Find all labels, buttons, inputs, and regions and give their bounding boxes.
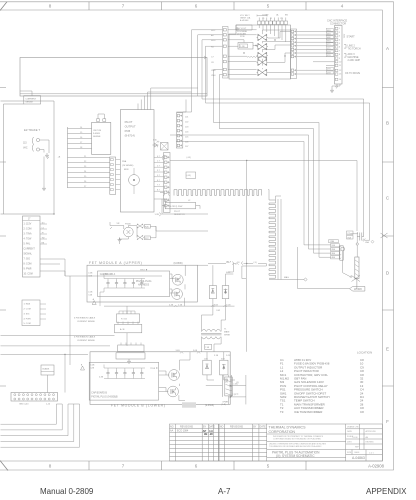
delta symbol module B [81, 366, 85, 370]
svg-text:6 PIN RIBBON CABLE: 6 PIN RIBBON CABLE [74, 317, 96, 320]
svg-text:(9-6506): (9-6506) [174, 262, 183, 265]
CNC annotation ARC V MACHINE [344, 54, 346, 58]
svg-text:D16: D16 [153, 140, 158, 142]
plug P1 contact lower [36, 148, 39, 151]
svg-text:T3: T3 [280, 410, 284, 414]
svg-text:9B: 9B [204, 432, 207, 436]
svg-text:C1: C1 [42, 227, 44, 229]
svg-text:CURRENT: CURRENT [25, 98, 36, 100]
svg-text:REVISIONS: REVISIONS [180, 425, 193, 428]
long sense wire to shunt [170, 161, 357, 232]
svg-text:A-02908: A-02908 [368, 464, 385, 469]
svg-text:TP08: TP08 [150, 368, 156, 370]
wire W10 long run to negative bus [202, 40, 364, 232]
svg-text:6: 6 [339, 47, 341, 49]
svg-text:-98: -98 [209, 432, 213, 436]
svg-text:106: 106 [185, 142, 189, 144]
svg-text:TW: TW [42, 237, 45, 239]
svg-text:CURRENT SENSE: CURRENT SENSE [77, 321, 95, 323]
svg-text:J7: J7 [28, 219, 31, 221]
pilot inductor L2 horizontal winding [174, 190, 262, 196]
svg-text:(9-6714): (9-6714) [125, 134, 135, 138]
wires divider internals [228, 30, 257, 75]
wire bus into J10 top [48, 354, 80, 404]
frame zone ticks right [383, 88, 394, 387]
junction arrow upper [230, 384, 232, 387]
terminal block TB1 stub wires [40, 224, 47, 244]
terminal strip TS above divider PCB [258, 18, 288, 25]
svg-text:DATE: DATE [347, 430, 353, 433]
svg-text:C8: C8 [211, 62, 215, 64]
pilot PCB left header J6 [110, 157, 116, 194]
svg-text:4: TOW: 4: TOW [24, 239, 33, 241]
svg-text:C: C [386, 196, 390, 201]
svg-text:C7: C7 [211, 57, 215, 59]
bridge BR1 [161, 143, 169, 151]
svg-text:10: COM: 10: COM [24, 274, 33, 276]
svg-text:2 ARC AMP: 2 ARC AMP [348, 59, 361, 62]
svg-text:OK TO MOVE: OK TO MOVE [345, 72, 360, 75]
svg-text:A: A [386, 46, 389, 51]
frame zone ticks top [89, 2, 306, 11]
svg-text:5: 5 [339, 43, 341, 45]
svg-text:12: 12 [339, 70, 342, 72]
frame zone ticks bottom [89, 461, 306, 470]
CNC annotation LINE 2 TIG TORCH [344, 45, 346, 49]
svg-text:VOL TAL Y: VOL TAL Y [240, 14, 250, 17]
svg-text:W1.F: W1.F [226, 262, 232, 264]
MOSFET Q4 [168, 386, 179, 397]
CNC wire number labels [327, 30, 332, 75]
wire R4 long run to work bus [206, 46, 370, 240]
terminal label 17B6 [329, 240, 339, 243]
svg-text:115: 115 [42, 222, 45, 224]
gate resistor board RB1 [118, 345, 144, 352]
CNC annotation START [344, 34, 345, 38]
capacitor bank B [104, 367, 145, 369]
svg-text:CB PCB: CB PCB [93, 130, 102, 132]
svg-text:A.1B: A.1B [214, 303, 219, 306]
ground spark gap [118, 238, 122, 242]
svg-text:79: 79 [42, 232, 44, 234]
divider PCB left pin wire labels [211, 30, 216, 77]
svg-text:17B: 17B [225, 382, 229, 384]
upper header wire labels [185, 117, 189, 148]
svg-text:8: 8 [339, 54, 341, 56]
wires module A internals [170, 265, 208, 306]
svg-text:8: COM: 8: COM [24, 264, 32, 266]
svg-text:D.2B: D.2B [226, 355, 231, 357]
svg-text:DRAWN CHK: DRAWN CHK [347, 426, 359, 429]
svg-text:GMMY 11A: GMMY 11A [240, 16, 251, 19]
svg-text:PCB: PCB [125, 129, 131, 133]
resistor R26 box [144, 225, 150, 229]
title block company name [269, 425, 307, 434]
svg-text:CURRENT SENSE: CURRENT SENSE [77, 340, 95, 342]
svg-text:MAG: MAG [284, 276, 289, 279]
svg-text:CAP BOARD A: CAP BOARD A [100, 273, 116, 276]
blank PCB box [41, 365, 54, 375]
ground module B [127, 359, 131, 363]
svg-text:7: 7 [122, 464, 125, 469]
wires C2 to buses [356, 237, 358, 243]
capacitor bank A [104, 278, 145, 280]
svg-text:FET MODULE B (LOWER): FET MODULE B (LOWER) [111, 403, 166, 407]
svg-text:2.1B: 2.1B [178, 304, 183, 306]
nested routing loop wire 3 [170, 135, 331, 249]
svg-text:2: 2 [339, 32, 341, 34]
svg-text:+B: +B [58, 157, 61, 159]
pilot output PCB box [120, 110, 154, 212]
output stud column [340, 246, 343, 260]
svg-text:(.5): (.5) [254, 262, 257, 264]
wire C7 C8 drop to nested loop [214, 70, 223, 129]
wire J10 exit 2 [1, 404, 63, 430]
svg-text:9: PWR: 9: PWR [24, 269, 32, 271]
junction diamond work [304, 278, 307, 281]
revision stamp [203, 429, 214, 436]
node 4.8 arrows [162, 155, 167, 157]
wires pilot resistor [154, 193, 208, 215]
output inductor L1 core line [278, 199, 281, 280]
svg-text:W10: W10 [211, 40, 216, 42]
svg-text:C1B: C1B [88, 295, 93, 297]
svg-text:7: SIG: 7: SIG [24, 259, 31, 261]
svg-text:4.3B: 4.3B [99, 377, 104, 379]
scan smudge highlight [182, 402, 196, 407]
svg-text:4: 4 [341, 4, 344, 9]
gate resistor board RA1 [117, 314, 140, 322]
svg-text:TIG TORCH: TIG TORCH [348, 47, 361, 50]
svg-text:B: B [386, 121, 389, 126]
svg-text:2: COM: 2: COM [24, 229, 32, 231]
CNC connector bottom wires and ground [332, 84, 340, 88]
wires module B internals [159, 352, 190, 401]
svg-text:45A: 45A [365, 241, 369, 244]
voltage divider PCB U10 outline [229, 25, 291, 79]
footer A-7 [218, 487, 230, 496]
aux terminal block TB2 [22, 300, 40, 326]
svg-text:CONNECTOR: CONNECTOR [330, 23, 346, 26]
module A pin labels left [88, 273, 93, 297]
svg-text:OUTPUT: OUTPUT [125, 125, 136, 129]
svg-text:BLANK: BLANK [43, 368, 50, 371]
svg-text:4.1B: 4.1B [88, 292, 93, 294]
capacitor C2 labels [347, 231, 354, 235]
transformer T1 secondary [202, 337, 221, 339]
testpoint box TP08 on T1 lead [205, 345, 212, 350]
freewheel diode D3 [203, 360, 211, 375]
wires pilot PCB top risers [138, 88, 198, 110]
svg-text:A :AY AVI: A :AY AVI [240, 19, 249, 22]
arrestor gap lower [137, 236, 143, 240]
voltage divider PCB label [237, 28, 248, 38]
frame corner mark bottom-left [0, 461, 8, 471]
svg-text:(.5): (.5) [236, 382, 239, 384]
svg-text:102: 102 [185, 122, 189, 124]
svg-text:PBA: PBA [122, 160, 127, 163]
svg-text:101: 101 [185, 117, 189, 119]
svg-text:SIGNAL: SIGNAL [24, 253, 33, 256]
svg-text:8: 8 [49, 4, 52, 9]
svg-text:VR: VR [117, 223, 120, 225]
MOSFET Q2 [172, 289, 183, 300]
svg-text:5: 5 [267, 464, 270, 469]
svg-text:104: 104 [185, 132, 189, 134]
wire J10 exit 5 [1, 404, 80, 447]
svg-text:EZ TRAKE T: EZ TRAKE T [24, 128, 40, 132]
frame zone ticks left [0, 88, 6, 387]
svg-text:(X): SYSTEM SCHEMATIC: (X): SYSTEM SCHEMATIC [276, 454, 315, 458]
harness bus vertical [67, 127, 69, 188]
wires spark gap cluster [110, 222, 208, 244]
svg-text:BRN: BRN [124, 169, 129, 171]
wire TB1 aux vertical [69, 276, 71, 365]
svg-text:4.8: 4.8 [162, 159, 166, 161]
svg-text:1: 1 [339, 28, 341, 30]
dimension bracket above strip [257, 15, 267, 17]
svg-text:BY: BY [203, 425, 207, 428]
cap board A box [98, 271, 170, 297]
shunt R1 [355, 257, 359, 279]
svg-text:CORPORATION: CORPORATION [269, 430, 296, 434]
svg-text:1: 115V: 1: 115V [24, 224, 32, 226]
transformer T1 label [224, 329, 230, 337]
terminal label 2B6 [331, 248, 340, 251]
current sense block CS [24, 96, 41, 104]
harness wire labels group 2 [84, 156, 87, 188]
harness wires group 1 to current pcb [68, 129, 92, 149]
svg-text:DATE: DATE [209, 425, 216, 428]
terminal label 3B6 [331, 252, 340, 255]
svg-text:AA: AA [170, 430, 174, 433]
output diode D2 [222, 286, 229, 299]
svg-text:LOCATION: LOCATION [357, 351, 372, 355]
svg-text:9-6969: 9-6969 [93, 133, 101, 135]
svg-text:VAC: VAC [23, 147, 28, 150]
transformer T1 primary [202, 329, 221, 331]
transformer bowties T inside divider PCB [257, 34, 268, 41]
svg-text:5: 5 [267, 4, 270, 9]
work return riser [298, 247, 350, 289]
contactor stud MC1 [341, 247, 345, 251]
connector J10 pins row 2 [14, 398, 55, 400]
svg-text:CURRENT: CURRENT [24, 249, 36, 251]
wires T2 taps [206, 386, 246, 397]
MOSFET Q1 [172, 274, 183, 285]
wire plug to pilot pcb [40, 140, 49, 186]
svg-text:DATE: DATE [260, 425, 267, 428]
svg-text:PCB: PCB [240, 36, 245, 38]
node labels row A [169, 303, 231, 306]
svg-text:INFORMATION PROPRIETARY TO THE: INFORMATION PROPRIETARY TO THERMAL DYNAM… [273, 435, 324, 438]
svg-text:CORPORATION AND NOT RELEASED O: CORPORATION AND NOT RELEASED OR PUBLISHE… [273, 438, 322, 441]
connector J10 pins row 1 [14, 394, 55, 396]
CNC interface connector body [335, 26, 343, 85]
footer Manual 0-2809 [40, 487, 93, 496]
wire TB1 to ribbon loop [40, 259, 65, 276]
FET module B box [90, 352, 230, 405]
transformer T1 core [201, 333, 222, 335]
svg-text:3: 3 [339, 36, 341, 38]
wires T1 [202, 306, 226, 352]
wire node row to L1 [208, 263, 253, 265]
CNC interface connector J15 label [327, 20, 347, 26]
svg-text:(26 SENSE): (26 SENSE) [122, 165, 134, 167]
svg-text:F: F [386, 419, 389, 424]
svg-text:AH: AH [366, 436, 369, 439]
svg-text:1.2B: 1.2B [155, 214, 160, 216]
nested routing loop wire 2 [219, 129, 330, 254]
svg-text:PG2B: PG2B [125, 224, 131, 226]
svg-text:SCALE: SCALE [347, 435, 354, 438]
harness wire labels group 1 [80, 127, 83, 149]
svg-text:C8: C8 [360, 410, 364, 414]
svg-text:1:1B: 1:1B [240, 46, 245, 48]
ground chassis upper [45, 153, 49, 157]
svg-text:R / 1B: R / 1B [121, 319, 127, 321]
svg-text:A / B: A / B [120, 328, 125, 331]
FET module A box [87, 265, 197, 302]
svg-text:10: 10 [339, 62, 342, 64]
sense bus vertical [246, 161, 248, 352]
terminal strip annotation text [240, 14, 288, 23]
svg-text:SENSE: SENSE [25, 102, 33, 104]
resistor R divider zigzag [247, 56, 267, 57]
svg-text:BY: BY [253, 425, 257, 428]
footer APPENDIX [366, 487, 406, 496]
svg-text:6 PIN RIBBON CABLE: 6 PIN RIBBON CABLE [74, 336, 96, 339]
resistor R27 box [144, 236, 150, 240]
svg-text:(.05): (.05) [187, 175, 192, 177]
svg-text:5: COM: 5: COM [24, 323, 31, 325]
snubber resistor RS [225, 377, 233, 396]
svg-text:MAIN: MAIN [224, 331, 230, 334]
svg-text:UNLESS OTHERWISE SPECIFIED DIM: UNLESS OTHERWISE SPECIFIED DIMENSIONS AR… [269, 443, 327, 446]
svg-text:14: 14 [339, 79, 342, 81]
svg-text:J1: J1 [270, 18, 273, 20]
nested routing loop wire 1 [214, 123, 331, 258]
output diode D4 [220, 360, 228, 375]
svg-text:A-04863: A-04863 [352, 456, 365, 460]
wire J10 exit 4 [1, 404, 74, 442]
svg-text:3: SIG: 3: SIG [24, 314, 30, 316]
svg-text:YB: YB [280, 18, 283, 20]
svg-text:D02: D02 [217, 310, 222, 312]
svg-text:SIZE: SIZE [347, 452, 352, 454]
svg-text:4: PWR: 4: PWR [24, 319, 32, 321]
svg-text:CAP BOARD B: CAP BOARD B [91, 392, 107, 395]
svg-text:XFMR: XFMR [224, 335, 230, 337]
svg-text:PILOT: PILOT [174, 211, 181, 213]
svg-text:(9-7312) 25W: (9-7312) 25W [169, 206, 183, 208]
pilot output PCB label [125, 120, 136, 138]
node labels row B [176, 350, 232, 357]
svg-text:REF: REF [355, 447, 360, 449]
pilot resistor R10 box [165, 202, 195, 208]
terminal block TB1 [23, 216, 41, 277]
spark gap SG1 [124, 227, 134, 237]
svg-text:SENSE: SENSE [93, 136, 101, 138]
svg-text:4: 4 [339, 39, 341, 41]
svg-text:A4: A4 [211, 34, 214, 37]
svg-text:WORK: WORK [354, 287, 362, 291]
svg-text:VOLTAGE: VOLTAGE [237, 30, 248, 33]
wire torch leads inside boundary [20, 56, 207, 96]
wire L2 end to L1 top [268, 190, 281, 201]
svg-text:1 of 1: 1 of 1 [369, 453, 374, 455]
svg-text:L2: L2 [188, 200, 191, 202]
upper header J8 [176, 113, 182, 148]
nested routing loop wire 4 [176, 142, 331, 245]
svg-text:NO: NO [220, 425, 224, 428]
svg-text:D.1B: D.1B [226, 304, 231, 306]
fold cross mark right border [381, 233, 388, 238]
current sense PCB box [92, 122, 111, 154]
gate resistor board RB2 [116, 353, 145, 359]
svg-text:3.1B: 3.1B [214, 355, 219, 357]
terminal label 1B6 [331, 244, 340, 247]
relay M inside pilot PCB [129, 175, 140, 186]
svg-text:CAGE: CAGE [354, 451, 360, 454]
svg-text:105: 105 [185, 137, 189, 139]
bus node row A [104, 305, 235, 307]
ground chassis lower [42, 186, 46, 190]
wire left bus down [1, 101, 55, 214]
output inductor L1 vertical winding [269, 200, 276, 278]
svg-text:3.4B: 3.4B [176, 350, 181, 352]
MOSFET Q3 [169, 370, 180, 381]
CNC wires from divider to connector [297, 31, 335, 74]
svg-text:HARNESS: HARNESS [138, 284, 150, 287]
svg-text:THERMAL DYNAMICS: THERMAL DYNAMICS [269, 425, 307, 429]
relay K1 inside divider PCB [238, 43, 253, 50]
svg-text:E: E [386, 347, 389, 352]
WORK flag [350, 286, 365, 291]
svg-text:R4: R4 [211, 47, 215, 49]
svg-text:C0B: C0B [88, 276, 93, 278]
freewheel diode D1 [209, 286, 216, 299]
title block fine print [269, 426, 377, 455]
svg-text:3: 79VA: 3: 79VA [24, 233, 32, 236]
svg-text:NO: NO [170, 425, 174, 428]
delta symbol module A [92, 301, 96, 305]
torch lead boundary box [20, 58, 207, 97]
pilot header pin numbers [157, 156, 161, 192]
terminal block TB1 pin list text [24, 224, 36, 276]
svg-text:107: 107 [185, 146, 189, 148]
svg-text:Y1: Y1 [262, 18, 265, 20]
revision table [170, 424, 267, 461]
svg-text:APPROVED: APPROVED [366, 430, 377, 433]
svg-text:REVISIONS: REVISIONS [230, 425, 243, 428]
svg-text:REVISED: REVISED [366, 442, 375, 444]
node dots divider internals [243, 39, 285, 56]
capacitor C2 [357, 232, 364, 241]
svg-text:(9-6506): (9-6506) [205, 404, 214, 407]
ribbon wires left [1, 306, 128, 354]
svg-text:6: 6 [195, 464, 198, 469]
svg-text:GND 4-40: GND 4-40 [19, 404, 29, 406]
divider PCB right pin header J4 [291, 29, 297, 79]
svg-text:ICE TRANSFORMER: ICE TRANSFORMER [294, 410, 322, 414]
svg-text:D: D [386, 271, 390, 276]
aux transformer T2 riser pair [222, 375, 231, 397]
svg-text:115: 115 [23, 143, 27, 145]
brace plug [32, 137, 33, 152]
svg-text:C2B: C2B [90, 368, 95, 370]
svg-text:1: RAS: 1: RAS [24, 303, 31, 306]
